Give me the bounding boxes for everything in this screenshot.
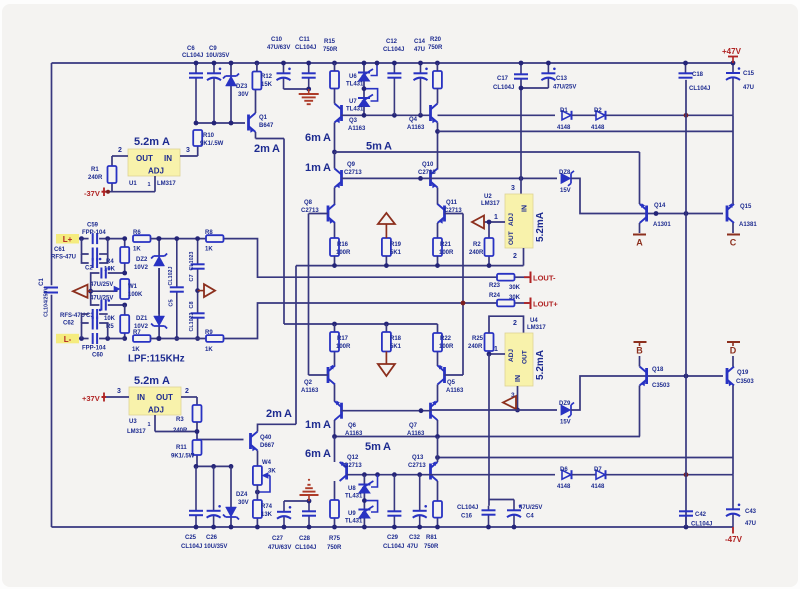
svg-text:100K: 100K	[128, 292, 143, 298]
svg-text:DZ3: DZ3	[236, 84, 248, 90]
node -47V	[732, 527, 734, 534]
svg-text:LM317: LM317	[127, 429, 146, 435]
net flag A	[633, 234, 646, 236]
svg-text:A: A	[323, 448, 331, 460]
resistor R81	[437, 518, 439, 527]
svg-text:30K: 30K	[509, 295, 521, 301]
wire Q3-Q4 base line	[342, 114, 431, 116]
potentiometer W1	[91, 290, 118, 292]
svg-text:R23: R23	[489, 283, 501, 289]
red arrow at U2 pin1	[472, 216, 484, 229]
svg-text:TL431: TL431	[345, 494, 363, 500]
svg-text:2: 2	[513, 253, 517, 260]
resistor R2	[488, 222, 490, 238]
resistor R8	[206, 235, 224, 242]
svg-text:C2713: C2713	[408, 463, 426, 469]
shunt U8 TL431	[363, 475, 365, 484]
op-amp U4 LM317 box	[505, 333, 533, 386]
resistor R20	[433, 71, 442, 89]
svg-text:Q13: Q13	[412, 455, 424, 461]
svg-text:30V: 30V	[238, 92, 249, 98]
node LOUT-	[530, 272, 532, 284]
net flag C	[727, 234, 740, 236]
svg-text:U7: U7	[349, 99, 357, 105]
capacitor C43	[732, 475, 734, 510]
svg-text:100R: 100R	[439, 344, 454, 350]
resistor R74	[256, 518, 258, 527]
wire base line to DZ8	[431, 177, 558, 179]
svg-text:47U: 47U	[414, 47, 425, 53]
svg-text:Q15: Q15	[740, 204, 752, 210]
svg-text:15V: 15V	[560, 188, 571, 194]
svg-text:100R: 100R	[336, 250, 351, 256]
transistor Q11	[443, 206, 446, 222]
svg-text:Q19: Q19	[737, 370, 749, 376]
svg-text:1K: 1K	[205, 247, 213, 253]
svg-text:ADJ: ADJ	[148, 167, 164, 176]
svg-text:5K1: 5K1	[390, 250, 402, 256]
svg-text:47U/25V: 47U/25V	[519, 505, 542, 511]
svg-text:A1163: A1163	[348, 126, 366, 132]
svg-text:D6: D6	[560, 467, 568, 473]
svg-text:Q8: Q8	[304, 200, 313, 206]
wire row4 bus	[284, 323, 438, 325]
svg-text:4148: 4148	[557, 125, 571, 131]
transistor Q19	[726, 368, 729, 384]
wire U3 adj	[154, 415, 156, 432]
transistor Q10	[429, 170, 432, 186]
svg-text:4148: 4148	[591, 484, 605, 490]
svg-text:10V2: 10V2	[134, 265, 149, 271]
svg-text:C3503: C3503	[736, 379, 754, 385]
capacitor C16	[488, 506, 490, 511]
red arrow at U4 pin3	[503, 396, 516, 409]
svg-text:L+: L+	[63, 235, 73, 244]
wire U6 ref hook	[371, 63, 378, 76]
svg-text:47U: 47U	[743, 85, 754, 91]
svg-text:TL431: TL431	[346, 82, 364, 88]
transistor Q12	[345, 464, 348, 480]
svg-text:Q9: Q9	[347, 162, 356, 168]
wire 2mA from Q1	[256, 138, 285, 140]
diode D2	[572, 114, 596, 116]
svg-text:W4: W4	[262, 460, 272, 466]
wire R25 top to U4 pin2	[489, 316, 524, 333]
node L+	[56, 234, 79, 244]
wire node line y466	[196, 465, 231, 467]
svg-text:ADJ: ADJ	[508, 213, 515, 226]
node L-	[56, 334, 79, 344]
svg-text:CL104J: CL104J	[691, 522, 712, 528]
svg-text:10U/35V: 10U/35V	[204, 544, 227, 550]
transistor Q1	[247, 115, 250, 131]
capacitor C8	[197, 291, 199, 314]
svg-text:A: A	[323, 162, 331, 174]
svg-text:A: A	[162, 375, 170, 387]
svg-text:CL104J: CL104J	[182, 53, 203, 59]
svg-text:C11: C11	[299, 37, 310, 43]
wire Q11 base down to Q5 base	[462, 214, 464, 376]
svg-text:CL104J: CL104J	[457, 505, 478, 511]
resistor R11	[196, 455, 198, 466]
svg-text:LPF:115KHz: LPF:115KHz	[128, 354, 185, 365]
svg-text:DZ4: DZ4	[236, 492, 248, 498]
diode D7	[572, 474, 596, 476]
svg-text:Q12: Q12	[347, 455, 359, 461]
capacitor C26	[213, 466, 215, 510]
svg-text:4148: 4148	[557, 484, 571, 490]
capacitor C13	[547, 63, 549, 73]
svg-text:R21: R21	[440, 242, 452, 248]
svg-text:47U/25V: 47U/25V	[553, 85, 576, 91]
svg-text:750R: 750R	[424, 544, 439, 550]
zener DZ9	[561, 405, 571, 415]
op-amp U1 LM317 box	[128, 149, 180, 176]
svg-text:R7: R7	[133, 330, 141, 336]
wire C10 bottom	[284, 88, 309, 90]
red arrow below R18	[385, 352, 387, 365]
capacitor C62	[82, 314, 89, 323]
capacitor C12	[393, 63, 395, 73]
svg-text:LM317: LM317	[481, 201, 500, 207]
svg-text:CL1023: CL1023	[189, 313, 195, 332]
net flag D	[727, 341, 740, 343]
svg-text:CL104J: CL104J	[689, 86, 710, 92]
svg-text:DZ8: DZ8	[559, 170, 571, 176]
resistor R9	[206, 335, 224, 342]
svg-text:C16: C16	[461, 514, 473, 520]
wire top +47V rail	[52, 62, 734, 64]
svg-text:15V: 15V	[560, 420, 571, 426]
svg-text:15K: 15K	[261, 82, 273, 88]
transistor Q6	[340, 403, 343, 419]
svg-text:3: 3	[186, 147, 190, 154]
svg-text:750R: 750R	[327, 545, 342, 551]
transistor Q13	[429, 464, 432, 480]
resistor R12	[252, 72, 261, 90]
capacitor C15	[732, 63, 734, 73]
transistor Q7	[429, 403, 432, 419]
svg-text:R8: R8	[205, 230, 213, 236]
svg-text:R4: R4	[106, 259, 114, 265]
capacitor C59	[92, 233, 94, 244]
svg-text:LOUT-: LOUT-	[533, 274, 556, 283]
svg-text:TL431: TL431	[346, 107, 364, 113]
svg-text:CL104J: CL104J	[295, 545, 316, 551]
red arrow input left	[73, 285, 88, 298]
svg-text:R25: R25	[472, 336, 484, 342]
resistor R1	[111, 156, 113, 166]
wire Q8 base down to Q2 base	[308, 214, 310, 376]
svg-text:47U/25V: 47U/25V	[90, 296, 113, 302]
svg-text:CL104/250V: CL104/250V	[44, 287, 50, 317]
svg-text:2: 2	[118, 147, 122, 154]
svg-text:A: A	[636, 238, 643, 248]
svg-text:2: 2	[185, 388, 189, 395]
svg-text:R22: R22	[440, 336, 452, 342]
svg-text:A1381: A1381	[739, 222, 757, 228]
svg-text:C32: C32	[409, 535, 421, 541]
transistor Q40	[249, 433, 252, 449]
svg-text:R74: R74	[261, 504, 273, 510]
potentiometer W4	[253, 466, 262, 485]
resistor R16	[330, 238, 339, 256]
svg-text:R18: R18	[390, 336, 402, 342]
svg-text:C: C	[730, 238, 737, 248]
resistor R25	[485, 333, 494, 351]
svg-text:750R: 750R	[428, 45, 443, 51]
svg-text:10K: 10K	[104, 316, 116, 322]
svg-text:ADJ: ADJ	[148, 406, 164, 415]
svg-text:30K: 30K	[509, 285, 521, 291]
svg-text:ADJ: ADJ	[508, 349, 515, 362]
svg-text:U4: U4	[530, 318, 538, 324]
svg-text:CL104J: CL104J	[295, 45, 316, 51]
svg-text:C42: C42	[695, 512, 707, 518]
wire DZ8 to Q14/Q15 bases	[571, 178, 723, 213]
ground above C28	[308, 495, 310, 501]
svg-text:C13: C13	[556, 76, 568, 82]
svg-text:D667: D667	[260, 443, 275, 449]
diode D6	[562, 470, 571, 479]
svg-text:R17: R17	[337, 336, 349, 342]
svg-text:RFS-47U: RFS-47U	[51, 255, 76, 261]
svg-text:C2713: C2713	[418, 170, 436, 176]
svg-text:R19: R19	[390, 242, 402, 248]
capacitor 47U/25V lower	[100, 300, 102, 311]
svg-text:47U: 47U	[407, 544, 418, 550]
wire 5mA collector line lower	[335, 436, 641, 438]
svg-text:1: 1	[148, 422, 151, 428]
resistor R21	[433, 238, 442, 256]
svg-text:5.2m: 5.2m	[134, 375, 159, 387]
zener DZ2	[158, 239, 160, 256]
shunt U9 TL431	[363, 494, 365, 510]
capacitor 47U/25V upper	[100, 268, 102, 279]
capacitor C61	[82, 239, 89, 254]
svg-text:IN: IN	[515, 375, 522, 382]
wire Q9-Q10 base line	[342, 177, 431, 179]
svg-text:R16: R16	[337, 242, 349, 248]
capacitor C14	[420, 63, 422, 73]
svg-text:2: 2	[513, 320, 517, 327]
svg-text:C8: C8	[189, 301, 195, 308]
resistor R4	[124, 239, 126, 247]
svg-text:C61: C61	[54, 247, 66, 253]
wire Q4 emitter line to Q15	[435, 129, 440, 134]
svg-text:C2713: C2713	[301, 208, 319, 214]
svg-text:C4: C4	[526, 514, 534, 520]
capacitor C7	[197, 239, 199, 265]
svg-text:C29: C29	[387, 535, 399, 541]
svg-text:U9: U9	[348, 511, 356, 517]
svg-text:B647: B647	[259, 123, 274, 129]
svg-text:6m: 6m	[305, 448, 321, 460]
svg-text:1m: 1m	[305, 162, 321, 174]
wire D1 D2 line	[438, 114, 556, 116]
svg-text:A: A	[272, 143, 280, 155]
svg-text:1m: 1m	[305, 419, 321, 431]
svg-text:R3: R3	[176, 417, 184, 423]
svg-text:C18: C18	[692, 72, 704, 78]
svg-text:240R: 240R	[469, 250, 484, 256]
wire C17 vertical to U2 pin3	[520, 81, 522, 195]
svg-text:9K1/.5W: 9K1/.5W	[200, 141, 224, 147]
svg-text:2m: 2m	[254, 143, 270, 155]
capacitor C32	[419, 475, 421, 511]
wire Q12-Q13 base line	[347, 474, 431, 476]
resistor R22	[437, 324, 439, 333]
svg-text:Q14: Q14	[654, 203, 666, 209]
capacitor C2	[82, 254, 89, 263]
wire D7 to C43 node	[606, 474, 733, 476]
wire U1 adj	[154, 176, 156, 192]
svg-text:3: 3	[117, 388, 121, 395]
svg-text:1: 1	[494, 214, 498, 221]
node -37V	[102, 191, 107, 193]
svg-text:R75: R75	[329, 536, 341, 542]
resistor R24	[515, 302, 530, 304]
capacitor C27	[283, 501, 285, 512]
svg-text:Q7: Q7	[409, 423, 418, 429]
wire U4 pin1 down to bottom	[488, 354, 490, 506]
ground under C11	[308, 89, 310, 94]
wire U4 pin3 in	[517, 386, 519, 410]
transistor Q18	[645, 368, 648, 384]
svg-text:+47V: +47V	[722, 47, 742, 56]
svg-text:U2: U2	[484, 194, 492, 200]
wire left border upper	[51, 63, 53, 285]
svg-text:R20: R20	[430, 37, 442, 43]
svg-text:A: A	[162, 136, 170, 148]
resistor R19	[382, 238, 391, 256]
svg-text:LM317: LM317	[527, 325, 546, 331]
diode D1	[562, 111, 571, 120]
svg-text:TL431: TL431	[345, 519, 363, 525]
resistor R3	[193, 405, 202, 422]
svg-text:U1: U1	[129, 181, 137, 187]
svg-text:C59: C59	[87, 223, 99, 229]
svg-text:47U/25V: 47U/25V	[90, 282, 113, 288]
svg-text:OUT: OUT	[522, 350, 529, 364]
svg-text:OUT: OUT	[156, 393, 173, 402]
svg-text:D1: D1	[560, 108, 568, 114]
svg-text:DZ1: DZ1	[136, 316, 148, 322]
svg-text:CL1023: CL1023	[189, 252, 195, 271]
svg-text:C15: C15	[743, 71, 755, 77]
svg-text:CL104J: CL104J	[181, 544, 202, 550]
svg-text:C3503: C3503	[652, 383, 670, 389]
svg-text:30V: 30V	[238, 500, 249, 506]
svg-text:240R: 240R	[88, 175, 103, 181]
svg-text:R10: R10	[203, 133, 215, 139]
svg-text:47U/63V: 47U/63V	[267, 45, 290, 51]
svg-text:CL102J: CL102J	[168, 267, 174, 286]
svg-text:5.2m: 5.2m	[134, 136, 159, 148]
svg-text:C10: C10	[271, 37, 283, 43]
svg-text:R2: R2	[473, 242, 481, 248]
svg-text:OUT: OUT	[136, 154, 153, 163]
svg-text:3: 3	[511, 185, 515, 192]
wire D2 to C15 node	[606, 114, 733, 116]
svg-text:R9: R9	[205, 330, 213, 336]
red arrow output right	[195, 288, 200, 293]
svg-text:5K1: 5K1	[390, 344, 402, 350]
svg-text:C5: C5	[169, 299, 175, 306]
wire U7 ref hook	[366, 89, 378, 101]
capacitor C28	[308, 501, 310, 511]
svg-text:47U: 47U	[745, 521, 756, 527]
svg-text:C2713: C2713	[444, 208, 462, 214]
svg-text:C26: C26	[206, 535, 218, 541]
capacitor C25	[195, 466, 197, 510]
svg-text:OUT: OUT	[508, 231, 515, 245]
wire Q6-Q7 base line	[342, 410, 431, 412]
svg-text:IN: IN	[164, 154, 172, 163]
svg-text:LM317: LM317	[157, 181, 176, 187]
transistor Q3	[340, 105, 343, 121]
svg-text:C62: C62	[63, 321, 75, 327]
svg-text:C1: C1	[39, 278, 45, 286]
svg-text:A1163: A1163	[301, 388, 319, 394]
svg-text:-47V: -47V	[725, 535, 743, 544]
wire U9 ref hook	[366, 501, 378, 512]
capacitor C10	[283, 63, 285, 73]
capacitor C17	[520, 63, 522, 74]
svg-text:Q10: Q10	[422, 162, 434, 168]
svg-text:240R: 240R	[468, 344, 483, 350]
svg-text:C2: C2	[85, 266, 93, 272]
svg-text:U8: U8	[348, 486, 356, 492]
svg-text:Q18: Q18	[652, 367, 664, 373]
svg-text:C27: C27	[272, 536, 284, 542]
op-amp U2 LM317 box	[505, 194, 533, 248]
transistor Q5	[443, 367, 446, 383]
zener DZ4	[230, 466, 232, 507]
svg-text:DZ9: DZ9	[559, 401, 571, 407]
svg-text:5.2mA: 5.2mA	[535, 350, 546, 380]
svg-text:DZ2: DZ2	[136, 257, 148, 263]
zener DZ8	[561, 173, 571, 183]
wire base line to DZ9	[431, 409, 558, 411]
wire base line to D6 D7	[431, 474, 556, 476]
svg-text:C17: C17	[497, 76, 509, 82]
transistor Q8	[327, 206, 330, 222]
svg-text:A: A	[284, 408, 292, 420]
svg-text:C60: C60	[92, 353, 104, 359]
svg-text:Q5: Q5	[447, 380, 456, 386]
svg-text:1K: 1K	[133, 247, 141, 253]
resistor R15	[330, 71, 339, 89]
svg-text:C14: C14	[414, 39, 426, 45]
svg-text:Q1: Q1	[259, 115, 268, 121]
resistor R6	[133, 235, 151, 242]
svg-text:C2713: C2713	[344, 463, 362, 469]
svg-text:750R: 750R	[323, 47, 338, 53]
svg-text:4148: 4148	[591, 125, 605, 131]
wire DZ9 to Q18/Q19 bases	[571, 376, 723, 410]
svg-text:5.2mA: 5.2mA	[535, 212, 546, 242]
wire 5mA line to Q14	[332, 150, 337, 155]
svg-text:C43: C43	[745, 509, 757, 515]
svg-text:1: 1	[494, 346, 498, 353]
svg-text:13K: 13K	[261, 512, 273, 518]
svg-text:A: A	[323, 132, 331, 144]
svg-text:U3: U3	[129, 419, 137, 425]
svg-text:C7: C7	[189, 274, 195, 281]
resistor R18	[385, 324, 387, 332]
svg-text:A: A	[323, 419, 331, 431]
